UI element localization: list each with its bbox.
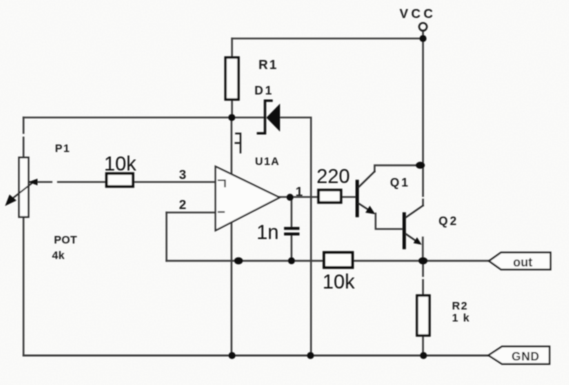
svg-text:GND: GND <box>512 350 540 364</box>
wire R1 bottom lead <box>231 100 233 118</box>
svg-text:Q2: Q2 <box>439 214 459 228</box>
resistor 220 body <box>319 190 342 203</box>
wire Q1 emitter to Q2 base <box>376 214 404 230</box>
potentiometer P1 wiper arrowhead <box>29 179 38 186</box>
wire capacitor C1 top lead <box>291 197 293 227</box>
wire ground rail (bottom) <box>24 355 490 357</box>
transistor Q2 collector diagonal <box>406 206 423 218</box>
VCC terminal circle <box>419 23 427 31</box>
svg-text:10k: 10k <box>323 272 356 294</box>
wire R2 bottom lead <box>422 336 424 356</box>
junction node top rail / Q1 collector <box>416 162 425 169</box>
svg-text:Q1: Q1 <box>390 176 410 190</box>
wire VCC vertical down to Q2 collector <box>422 31 424 206</box>
svg-text:10k: 10k <box>104 154 137 176</box>
transistor Q1 emitter diagonal with arrow <box>359 204 370 211</box>
diode D1 anode triangle <box>266 104 280 132</box>
svg-text:3: 3 <box>179 167 186 182</box>
wire pot wiper to resistor 10k <box>30 181 107 183</box>
transistor Q2 base bar <box>403 214 406 248</box>
junction node ground rail / mid vertical <box>229 352 236 359</box>
svg-text:U1A: U1A <box>255 156 280 168</box>
junction node ground rail / R2 bottom <box>420 352 427 359</box>
svg-text:2: 2 <box>179 197 186 212</box>
op-amp power pin mark near mid vertical <box>236 134 241 153</box>
junction node at R1 bottom / D1 anode <box>228 114 235 121</box>
svg-text:POT: POT <box>54 235 77 247</box>
transistor Q1 collector diagonal <box>359 172 375 188</box>
wire top rail to VCC <box>232 38 423 40</box>
resistor 10k (lower, feedback) body <box>324 253 353 268</box>
wire mid vertical (node to ground rail, passes behind op-amp) <box>231 118 233 356</box>
transistor Q1 base bar <box>356 182 359 216</box>
junction node capacitor bottom <box>288 257 295 264</box>
svg-text:220: 220 <box>317 166 350 188</box>
resistor R2 body <box>417 296 430 336</box>
resistor R1 body <box>226 58 239 100</box>
op-amp U1A plus mark (top input) <box>219 180 226 186</box>
diode D1 cathode bar with hooks <box>258 101 272 134</box>
junction node output / Q2 emitter / R2 <box>418 257 427 264</box>
svg-text:D1: D1 <box>255 84 274 98</box>
wire op-amp pin3 input <box>133 181 216 183</box>
op-amp U1A minus mark (bottom input) <box>219 211 225 213</box>
wire feedback vertical <box>166 213 168 261</box>
OUT terminal flag <box>489 253 551 270</box>
wire R2 top lead <box>422 261 424 296</box>
wire op-amp pin2 input <box>167 212 216 214</box>
svg-text:R1: R1 <box>259 57 279 72</box>
svg-text:4k: 4k <box>52 250 65 262</box>
junction node ground rail / D1 branch <box>307 352 314 359</box>
wire pot bottom lead to ground rail <box>23 217 25 356</box>
capacitor C1 plates <box>286 227 299 230</box>
GND terminal flag <box>489 347 550 365</box>
op-amp U1A triangle <box>216 167 280 231</box>
wire top-left node horizontal (pot top to R1 bottom node) <box>24 117 232 119</box>
junction node below VCC <box>420 35 427 42</box>
potentiometer P1 body <box>19 158 29 218</box>
svg-text:1n: 1n <box>257 222 279 244</box>
wire feedback / output lower horizontal to OUT <box>167 260 490 262</box>
wire Q2 emitter down to output node <box>422 238 424 261</box>
wire Q1 collector to top rail <box>375 165 423 171</box>
svg-text:1 k: 1 k <box>452 313 470 325</box>
wire D1 anode left connection <box>232 117 265 119</box>
svg-text:1: 1 <box>296 184 303 199</box>
potentiometer P1 diagonal arrow <box>8 182 34 203</box>
wire R1 top lead <box>231 39 233 58</box>
junction node op-amp output <box>287 194 294 201</box>
wire D1 right connection with corner down <box>280 118 311 356</box>
wire capacitor C1 bottom lead <box>291 236 293 261</box>
svg-text:out: out <box>513 256 533 270</box>
svg-text:P1: P1 <box>55 143 70 155</box>
svg-text:R2: R2 <box>452 301 468 313</box>
svg-text:VCC: VCC <box>400 6 436 21</box>
wire op-amp output to Q1 base <box>280 196 358 198</box>
junction node feedback wire / mid vertical <box>234 257 243 264</box>
resistor 10k (upper, at pin3) body <box>107 174 134 187</box>
wire pot top lead <box>23 118 25 159</box>
transistor Q2 emitter diagonal with arrow <box>406 234 418 242</box>
